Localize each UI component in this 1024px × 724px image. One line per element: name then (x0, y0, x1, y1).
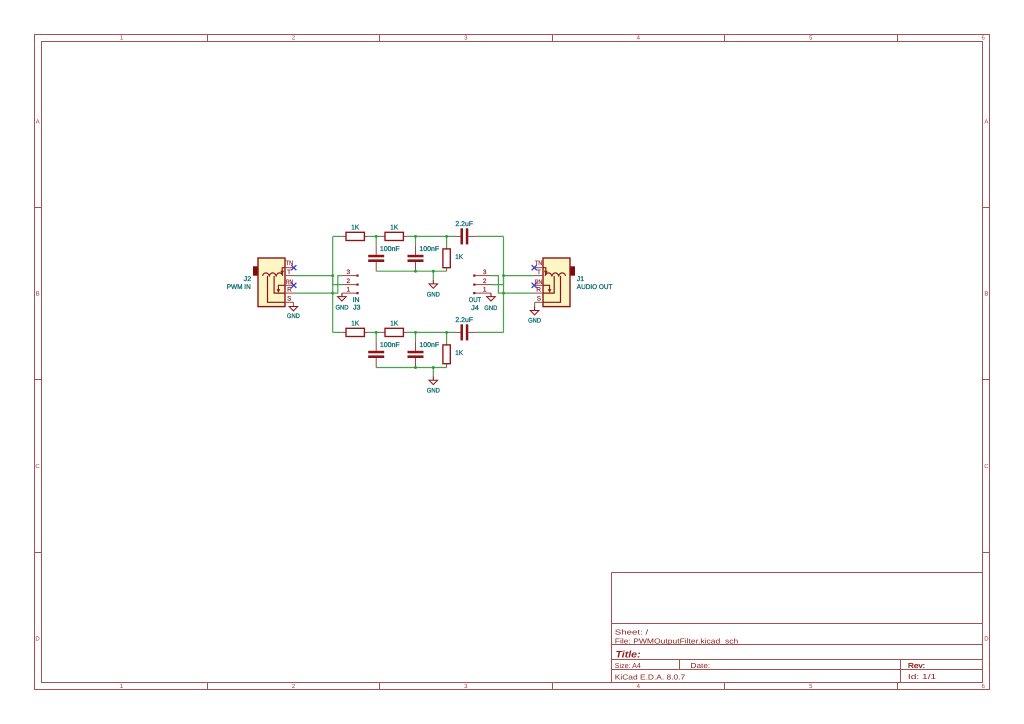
junction top node2 (414, 235, 417, 238)
svg-text:C: C (35, 463, 40, 470)
wire top chain: node2 to cap (407, 235, 455, 237)
svg-text:GND: GND (336, 305, 349, 312)
svg-text:2.2uF: 2.2uF (455, 221, 473, 228)
wire bottom ground bus (376, 367, 446, 369)
svg-text:1K: 1K (455, 350, 463, 357)
power symbol GND at J3 pin 1 (336, 293, 349, 311)
svg-text:1K: 1K (390, 225, 398, 232)
power symbol GND (bottom chain) (427, 368, 440, 395)
svg-text:3: 3 (347, 269, 351, 276)
no-connect X J1 pin TN (532, 265, 537, 270)
capacitor bottom series (2.2uF) (455, 317, 478, 340)
wire T jog to J4 pin 2 (491, 276, 504, 285)
svg-text:B: B (36, 291, 40, 298)
no-connect X J2 pin RN (291, 283, 296, 288)
capacitor bottom shunt 1 (100nF) (368, 332, 399, 367)
svg-text:2: 2 (483, 278, 487, 285)
svg-text:GND: GND (484, 305, 497, 312)
svg-text:J1: J1 (577, 276, 584, 283)
svg-text:1: 1 (347, 287, 351, 294)
svg-text:Rev:: Rev: (908, 661, 925, 670)
svg-text:AUDIO OUT: AUDIO OUT (577, 284, 613, 291)
svg-text:B: B (984, 291, 988, 298)
svg-text:1: 1 (483, 287, 487, 294)
junction top gnd bus cap2 (414, 270, 417, 273)
wire T jog to J3 pin 2 (333, 276, 342, 285)
junction bottom node2 (414, 331, 417, 334)
svg-text:Title:: Title: (616, 650, 641, 661)
wire R jog to J3 pin 3 (333, 276, 342, 294)
junction top node1 (375, 235, 378, 238)
svg-text:1K: 1K (455, 254, 463, 261)
wire left vertical bus (332, 236, 334, 332)
title block (612, 573, 983, 683)
wire top chain: node1 segment (368, 235, 381, 237)
svg-text:IN: IN (353, 297, 360, 304)
svg-text:File: PWMOutputFilter.kicad_sc: File: PWMOutputFilter.kicad_sch (615, 636, 738, 645)
capacitor top shunt 2 (100nF) (408, 236, 440, 271)
svg-text:2.2uF: 2.2uF (455, 317, 473, 324)
connector J3 IN (3-pin) (342, 269, 361, 311)
junction top gnd bus tap (432, 270, 435, 273)
junction top node3 (445, 235, 448, 238)
svg-text:100nF: 100nF (380, 246, 400, 253)
wire right vertical bus (503, 236, 505, 332)
svg-text:J3: J3 (353, 305, 361, 312)
resistor bottom series 1 (1K) (342, 321, 369, 337)
svg-text:GND: GND (427, 291, 440, 298)
capacitor top shunt 1 (100nF) (368, 236, 399, 271)
junction bottom node1 (375, 331, 378, 334)
svg-text:A: A (36, 119, 40, 126)
capacitor top series (2.2uF) (455, 221, 478, 244)
svg-text:2: 2 (347, 278, 351, 285)
svg-text:C: C (984, 463, 989, 470)
wire bottom chain: node1 segment (368, 331, 381, 333)
svg-text:Size: A4: Size: A4 (615, 661, 641, 670)
wire J1 R pin to right bus (504, 292, 535, 294)
no-connect X J1 pin RN (532, 283, 537, 288)
svg-text:100nF: 100nF (419, 246, 439, 253)
power symbol GND at J4 pin 1 (484, 293, 497, 312)
svg-text:1K: 1K (351, 225, 359, 232)
svg-text:D: D (35, 636, 40, 643)
svg-text:S: S (287, 295, 291, 302)
resistor top shunt (1K) vertical (443, 236, 463, 271)
svg-text:OUT: OUT (469, 297, 481, 304)
svg-text:PWM IN: PWM IN (227, 284, 251, 291)
wire J2 T pin to left bus (294, 275, 333, 277)
wire J2 R pin to left bus (294, 292, 333, 294)
wire J1 T pin to right bus (504, 275, 535, 277)
svg-text:T: T (287, 269, 291, 276)
svg-text:T: T (537, 269, 541, 276)
junction bottom gnd bus tap (432, 366, 435, 369)
svg-text:100nF: 100nF (380, 342, 400, 349)
no-connect X J2 pin TN (291, 265, 296, 270)
connector J1 audio jack AUDIO OUT (534, 258, 612, 307)
wire bottom chain: cap to right bus (478, 331, 504, 333)
connector J2 audio jack PWM IN (227, 258, 294, 307)
svg-text:100nF: 100nF (419, 342, 439, 349)
junction left bus R (331, 292, 334, 295)
svg-text:3: 3 (483, 269, 487, 276)
power symbol GND (top chain) (427, 271, 440, 298)
wire top chain: cap to right bus (478, 235, 504, 237)
svg-text:Id: 1/1: Id: 1/1 (908, 672, 936, 681)
power symbol GND at J1 sleeve (528, 302, 541, 324)
wire top chain: bus to R left (333, 235, 342, 237)
wire bottom chain: bus to R left (333, 331, 342, 333)
svg-text:GND: GND (427, 388, 440, 395)
svg-text:1K: 1K (351, 321, 359, 328)
svg-text:Sheet: /: Sheet: / (615, 627, 648, 636)
svg-text:J2: J2 (244, 276, 252, 283)
junction left bus T (331, 274, 334, 277)
power symbol GND at J2 sleeve (287, 302, 300, 320)
connector J4 OUT (3-pin) (469, 269, 491, 312)
svg-text:KiCad E.D.A. 8.0.7: KiCad E.D.A. 8.0.7 (615, 672, 685, 681)
svg-text:1K: 1K (390, 321, 398, 328)
svg-text:D: D (984, 636, 989, 643)
wire top ground bus (376, 270, 446, 272)
svg-text:GND: GND (528, 317, 541, 324)
resistor bottom series 2 (1K) (381, 321, 407, 337)
junction right bus R (502, 292, 505, 295)
resistor bottom shunt (1K) vertical (443, 332, 463, 367)
svg-text:S: S (537, 295, 541, 302)
svg-text:J4: J4 (471, 305, 479, 312)
resistor top series 2 (1K) (381, 225, 407, 241)
capacitor bottom shunt 2 (100nF) (408, 332, 440, 367)
wire bottom chain: node2 to cap (407, 331, 455, 333)
wire R jog to J4 pin 3 (491, 276, 504, 294)
junction bottom node3 (445, 331, 448, 334)
svg-text:GND: GND (287, 313, 300, 320)
resistor top series 1 (1K) (342, 225, 369, 241)
junction right bus T (502, 274, 505, 277)
junction bottom gnd bus cap2 (414, 366, 417, 369)
svg-text:Date:: Date: (691, 661, 711, 670)
svg-text:A: A (984, 119, 988, 126)
